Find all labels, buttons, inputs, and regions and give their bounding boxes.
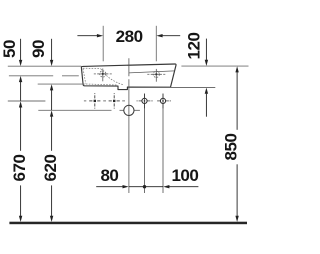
svg-text:50: 50	[0, 40, 19, 58]
dim 90 lower arrow	[50, 84, 53, 110]
rim level reference line right	[181, 65, 248, 67]
tap hole left	[94, 69, 112, 82]
svg-text:850: 850	[222, 134, 241, 161]
dim 120 upper arrow	[205, 39, 208, 66]
supply connection circle 1	[139, 94, 151, 109]
svg-text:100: 100	[171, 166, 198, 185]
reference line 50 below rim	[9, 75, 79, 77]
dim 120 lower arrow	[205, 88, 208, 117]
dim line between 80 and 100 with junction dot	[129, 185, 163, 188]
dim 620 upper arrow	[50, 110, 53, 150]
reference line 90 below rim	[38, 83, 85, 85]
basin inner dashed left edge	[83, 69, 86, 84]
dim 280 extension line left	[102, 26, 104, 62]
svg-text:670: 670	[10, 155, 29, 182]
tap hole right	[147, 69, 165, 82]
dim 50 lower arrow	[19, 76, 22, 101]
svg-text:280: 280	[116, 27, 143, 46]
dim 80 dimension line with arrow	[96, 185, 129, 188]
dim 100 dimension line with arrow	[163, 185, 198, 188]
mounting hole right	[109, 93, 120, 108]
supply level reference line	[8, 100, 46, 102]
dim 90 upper arrow	[50, 39, 53, 66]
basin bottom reference line right	[170, 87, 215, 89]
svg-text:80: 80	[100, 166, 118, 185]
drain level reference line	[38, 109, 111, 111]
dim 50 upper arrow	[19, 39, 22, 66]
basin inner dashed rim line	[83, 67, 101, 69]
mounting hole left	[89, 93, 100, 108]
supply centre dash-dot line	[84, 100, 171, 102]
supply connection circle 2	[157, 94, 169, 109]
dim 850 lower arrow	[235, 164, 238, 222]
dim 670 upper arrow	[19, 101, 22, 151]
dim 620 lower arrow	[50, 185, 53, 222]
drain dash right	[120, 109, 140, 111]
washbasin centre line	[128, 58, 130, 76]
floor line	[9, 222, 247, 225]
basin bowl hidden curve	[101, 69, 124, 85]
svg-text:620: 620	[41, 155, 60, 182]
dim 280 dimension line right arrow	[156, 34, 180, 37]
supply pipe line 1	[144, 94, 146, 193]
svg-text:90: 90	[29, 40, 48, 58]
rim level reference line left	[8, 65, 82, 67]
washbasin outline	[81, 64, 176, 90]
supply pipe line 2	[162, 94, 164, 193]
basin inner dashed bottom line	[86, 84, 118, 85]
svg-text:120: 120	[184, 33, 203, 60]
basin deck edge line	[129, 71, 174, 73]
dim 280 dimension line left arrow	[77, 34, 103, 37]
drain circle	[124, 105, 134, 115]
dim 850 upper arrow	[235, 66, 238, 130]
dim 670 lower arrow	[19, 185, 22, 222]
dim 280 extension line right	[155, 26, 157, 62]
